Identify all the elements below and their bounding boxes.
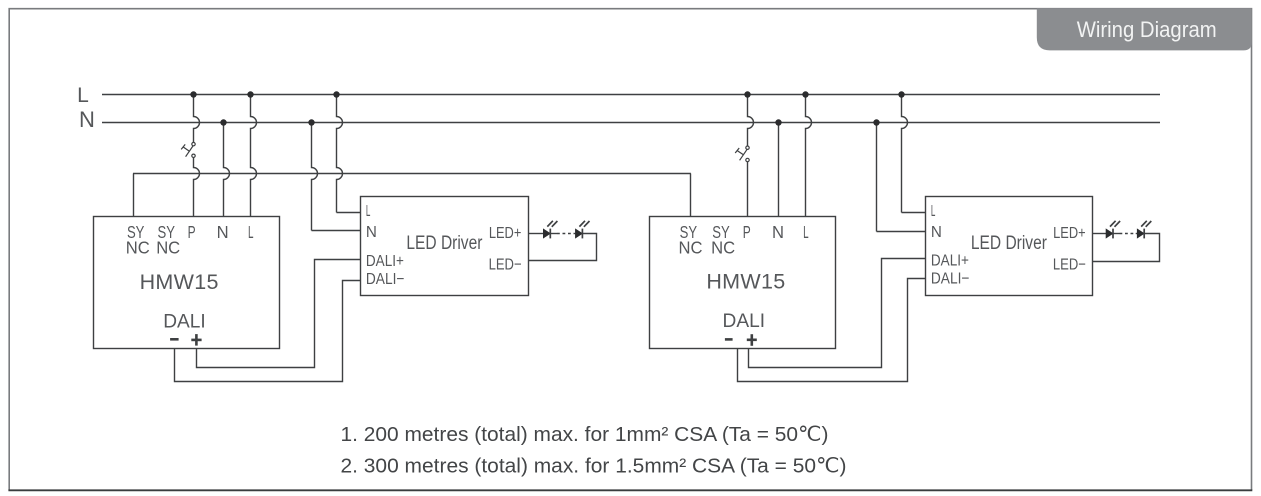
svg-text:L: L — [931, 203, 936, 220]
svg-text:DALI+: DALI+ — [366, 253, 404, 270]
svg-text:DALI: DALI — [163, 312, 206, 333]
svg-text:DALI−: DALI− — [931, 271, 970, 288]
svg-text:P: P — [743, 222, 751, 242]
svg-text:1. 200 metres (total) max. for: 1. 200 metres (total) max. for 1mm² CSA … — [341, 423, 829, 446]
svg-text:LED−: LED− — [1053, 256, 1086, 273]
svg-text:L: L — [77, 84, 89, 107]
svg-text:2. 300 metres (total) max. for: 2. 300 metres (total) max. for 1.5mm² CS… — [341, 455, 847, 478]
svg-text:N: N — [366, 224, 377, 241]
svg-text:NC: NC — [711, 238, 735, 258]
svg-text:NC: NC — [679, 238, 703, 258]
svg-text:DALI: DALI — [723, 311, 766, 332]
svg-text:NC: NC — [156, 238, 180, 258]
svg-text:L: L — [248, 222, 254, 242]
svg-text:P: P — [188, 222, 196, 242]
svg-text:Wiring Diagram: Wiring Diagram — [1077, 17, 1217, 42]
svg-text:LED−: LED− — [489, 256, 522, 273]
svg-text:N: N — [772, 222, 784, 242]
svg-text:DALI−: DALI− — [366, 271, 405, 288]
svg-text:N: N — [931, 224, 942, 241]
svg-text:HMW15: HMW15 — [140, 270, 219, 294]
svg-text:DALI+: DALI+ — [931, 253, 969, 270]
svg-text:LED Driver: LED Driver — [406, 233, 483, 254]
svg-text:N: N — [79, 107, 95, 132]
svg-text:NC: NC — [126, 238, 150, 258]
svg-text:LED+: LED+ — [489, 225, 522, 242]
svg-text:LED+: LED+ — [1053, 225, 1086, 242]
svg-text:L: L — [803, 222, 809, 242]
svg-text:N: N — [217, 222, 229, 242]
svg-text:LED Driver: LED Driver — [971, 233, 1048, 254]
svg-text:L: L — [366, 203, 371, 220]
svg-text:HMW15: HMW15 — [706, 270, 785, 294]
